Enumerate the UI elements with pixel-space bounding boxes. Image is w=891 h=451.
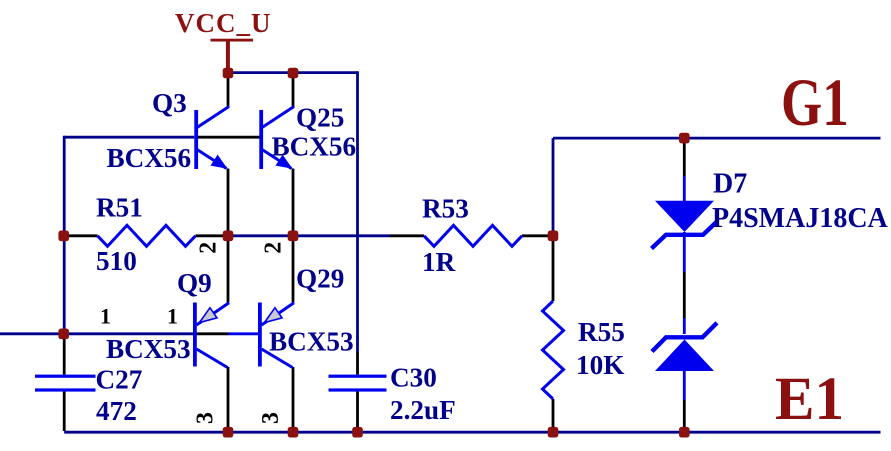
pin Q9 emitter bbox=[227, 237, 230, 303]
wire bottom rail E1 bbox=[64, 431, 880, 434]
junction VCC right bbox=[288, 68, 299, 79]
resistor R53 bbox=[390, 234, 424, 237]
junction left bus / R51 bbox=[58, 231, 69, 242]
junction bottom rail R55 bbox=[548, 427, 559, 438]
net label G1 bbox=[781, 66, 849, 141]
svg-text:3: 3 bbox=[258, 412, 284, 424]
svg-text:2.2uF: 2.2uF bbox=[390, 395, 456, 425]
diode D7 (bidirectional TVS) bbox=[683, 139, 686, 176]
junction mid rail Q25/Q29 bbox=[288, 231, 299, 242]
svg-text:VCC_U: VCC_U bbox=[175, 8, 272, 38]
pin Q25 collector bbox=[292, 73, 295, 107]
svg-text:1R: 1R bbox=[422, 247, 456, 277]
junction bottom rail D7 bbox=[679, 427, 690, 438]
resistor R51 bbox=[65, 234, 98, 237]
svg-text:R51: R51 bbox=[96, 193, 143, 223]
svg-text:R53: R53 bbox=[422, 194, 469, 224]
wire Q3 base horizontal bbox=[64, 136, 194, 139]
svg-text:Q25: Q25 bbox=[296, 103, 344, 133]
wire base link Q3 to Q25 bbox=[198, 136, 260, 139]
transistor Q9 bbox=[193, 303, 197, 367]
junction bottom rail Q9 bbox=[223, 427, 234, 438]
svg-text:BCX53: BCX53 bbox=[269, 326, 354, 356]
capacitor C27 bbox=[63, 335, 66, 375]
transistor Q3 bbox=[194, 110, 198, 169]
wire base link Q9 to Q29 black part bbox=[197, 332, 229, 335]
junction G1 / D7 bbox=[679, 133, 690, 144]
svg-text:472: 472 bbox=[96, 396, 137, 426]
junction bottom rail C30 bbox=[352, 427, 363, 438]
pin Q29 collector bbox=[292, 367, 295, 431]
svg-text:3: 3 bbox=[193, 412, 219, 424]
wire G1 vertical leg bbox=[552, 138, 555, 236]
junction left bus / Q9 base bbox=[58, 329, 69, 340]
svg-text:1: 1 bbox=[167, 304, 178, 329]
svg-text:R55: R55 bbox=[578, 317, 625, 347]
wire mid rail bbox=[228, 234, 390, 237]
wire base link Q9 to Q29 blue part bbox=[229, 332, 259, 335]
svg-text:E1: E1 bbox=[775, 364, 844, 432]
capacitor C30 bbox=[356, 352, 359, 375]
svg-text:BCX53: BCX53 bbox=[106, 334, 191, 364]
wire left vertical bus bbox=[63, 136, 66, 334]
wire G1 rail bbox=[553, 137, 881, 140]
wire top rail VCC node bbox=[228, 71, 358, 74]
svg-text:G1: G1 bbox=[781, 66, 849, 141]
svg-text:Q9: Q9 bbox=[177, 268, 212, 298]
wire Q9 base horizontal from left edge bbox=[0, 332, 193, 335]
junction mid rail Q3/Q9 bbox=[223, 231, 234, 242]
pin Q25 emitter bbox=[292, 169, 295, 236]
transistor Q25 bbox=[259, 110, 263, 169]
svg-text:2: 2 bbox=[196, 242, 222, 254]
junction VCC left bbox=[223, 68, 234, 79]
svg-text:D7: D7 bbox=[713, 169, 747, 200]
junction bottom rail Q29 bbox=[288, 427, 299, 438]
svg-text:Q3: Q3 bbox=[152, 88, 187, 118]
svg-text:10K: 10K bbox=[576, 350, 624, 380]
junction mid rail R53/R55 bbox=[548, 231, 559, 242]
svg-text:P4SMAJ18CA: P4SMAJ18CA bbox=[712, 203, 889, 234]
resistor R55 bbox=[552, 237, 555, 302]
pin Q3 collector bbox=[227, 73, 230, 107]
svg-text:C30: C30 bbox=[390, 363, 437, 393]
svg-text:BCX56: BCX56 bbox=[107, 143, 192, 173]
svg-text:C27: C27 bbox=[96, 365, 143, 395]
svg-text:BCX56: BCX56 bbox=[272, 132, 357, 162]
pin Q29 emitter bbox=[292, 237, 295, 303]
transistor Q29 bbox=[258, 303, 262, 367]
wire right branch vertical to C30 bbox=[356, 71, 359, 352]
svg-text:510: 510 bbox=[96, 246, 137, 276]
svg-text:2: 2 bbox=[261, 242, 287, 254]
power symbol VCC_U bbox=[211, 39, 254, 42]
net label E1 bbox=[775, 364, 844, 432]
pin Q9 collector bbox=[227, 367, 230, 431]
pin Q3 emitter bbox=[227, 169, 230, 236]
svg-text:1: 1 bbox=[100, 304, 111, 329]
svg-text:Q29: Q29 bbox=[296, 264, 344, 294]
